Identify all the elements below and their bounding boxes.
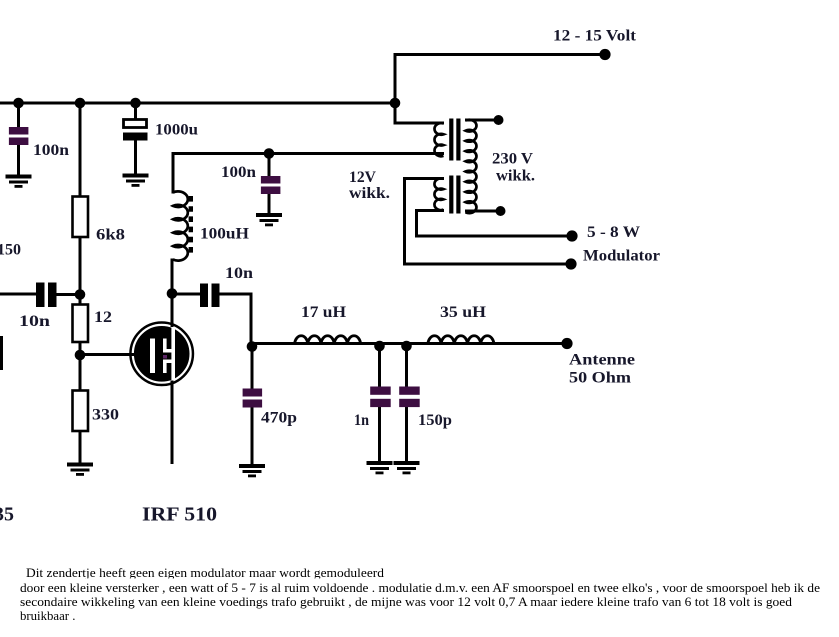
wire corner down x=251 [250, 293, 253, 346]
core dashes of 100uH [189, 196, 193, 253]
terminal 5-8W [566, 230, 577, 241]
transformer secondary winding 230V [466, 120, 477, 213]
label 12V [349, 169, 376, 186]
node output line / 150p [401, 341, 412, 352]
wire 150p stem upper [405, 345, 408, 388]
svg-text:12V: 12V [349, 169, 376, 186]
wire drain vertical x=172 [171, 259, 174, 328]
label Antenne [569, 352, 635, 369]
svg-text:1000u: 1000u [155, 122, 198, 139]
label 150p [418, 412, 452, 429]
wire output cap to corner [218, 293, 253, 296]
svg-text:6k8: 6k8 [96, 227, 125, 244]
transformer core (bottom) [449, 176, 460, 214]
wire RFC top corner x=173 [172, 152, 175, 194]
svg-text:150: 150 [0, 242, 21, 259]
label 330 [92, 407, 119, 424]
node rail / 1000u [130, 98, 141, 109]
svg-text:secondaire wikkeling van een k: secondaire wikkeling van een kleine voed… [20, 595, 793, 609]
label wikk. (230V) [496, 168, 535, 185]
label 470p [261, 410, 297, 427]
label 5 - 8 W [587, 224, 640, 241]
svg-text:wikk.: wikk. [496, 168, 535, 185]
label 50 Ohm [569, 370, 632, 387]
capacitor C 150p (plates) [399, 387, 420, 408]
capacitor C 10n input (plates) [36, 283, 57, 308]
wire 1000u stem upper [134, 103, 137, 121]
wire secondary bottom lead [465, 210, 501, 213]
svg-text:470p: 470p [261, 410, 297, 427]
ground under 330 [67, 463, 93, 476]
svg-text:100n: 100n [221, 164, 256, 181]
svg-text:wikk.: wikk. [349, 185, 390, 202]
ground under 100n decouple [256, 213, 282, 226]
caption line 2 [20, 581, 820, 595]
capacitor C 1000u electrolytic [123, 120, 148, 141]
svg-text:35: 35 [0, 504, 14, 526]
transistor Q IRF510 MOSFET [131, 323, 193, 385]
node RFC feed / 100n decouple [264, 148, 275, 159]
svg-text:bruikbaar .: bruikbaar . [20, 609, 75, 623]
wire to transformer primary top [394, 122, 445, 125]
label 100n decouple [221, 164, 256, 181]
capacitor C 100n bypass (plates) [9, 127, 29, 145]
svg-text:10n: 10n [19, 313, 50, 330]
wire gate into MOSFET [126, 353, 150, 356]
white clip over caption line 1 descenders [20, 578, 440, 581]
capacitor C 10n output (plates) [200, 284, 220, 308]
terminal secondary top [494, 115, 504, 125]
wire 330 to ground [79, 430, 82, 465]
label IRF 510 [142, 504, 217, 526]
wire gate lead [79, 353, 151, 356]
label 1000u [155, 122, 198, 139]
partial component at left edge [0, 336, 3, 370]
svg-text:1n: 1n [354, 412, 369, 429]
terminal modulator [565, 258, 576, 269]
capacitor C 470p (plates) [243, 389, 263, 408]
label 10n output [225, 265, 253, 282]
svg-text:Dit zendertje heeft geen eigen: Dit zendertje heeft geen eigen modulator… [26, 566, 385, 580]
wire 100n decouple stem lower [268, 193, 271, 215]
label 17 uH [301, 304, 347, 321]
wire 100n decouple stem upper [268, 154, 271, 178]
wire between 6k8 and 12 [79, 236, 82, 307]
ground under 150p [394, 461, 420, 474]
inductor L 17uH [295, 336, 361, 344]
label 6k8 [96, 227, 125, 244]
wire modulator bottom lead [403, 263, 571, 266]
wire drain into MOSFET [171, 291, 174, 327]
svg-text:door een kleine versterker , e: door een kleine versterker , een watt of… [20, 581, 820, 595]
wire modulator winding top lead [403, 177, 444, 180]
wire 5-8W stub vertical [415, 209, 418, 238]
label 100n bypass [33, 142, 69, 159]
label 100uH [200, 226, 250, 243]
resistor R 330 [73, 391, 89, 432]
transformer primary winding (top) [434, 123, 443, 156]
node gate input junction [75, 289, 86, 300]
svg-text:330: 330 [92, 407, 119, 424]
svg-text:35 uH: 35 uH [440, 304, 487, 321]
wire bias branch from rail [79, 103, 82, 198]
transformer modulator winding (bottom) [434, 178, 443, 210]
wire source out of MOSFET [171, 381, 174, 465]
node rail / riser [390, 98, 401, 109]
wire 1n stem upper [378, 345, 381, 388]
terminal 12-15 Volt [599, 49, 610, 60]
label wikk. (12V) [349, 185, 390, 202]
svg-text:Modulator: Modulator [583, 248, 660, 265]
ground under 1000u [123, 174, 149, 187]
svg-text:100uH: 100uH [200, 226, 250, 243]
wire drain junction to output cap [171, 293, 201, 296]
inductor L 100uH RFC [173, 191, 188, 260]
svg-text:17 uH: 17 uH [301, 304, 347, 321]
terminal antenna [561, 338, 572, 349]
resistor R 12 [73, 305, 89, 343]
wire secondary top lead [465, 119, 498, 122]
node output line / 1n [374, 341, 385, 352]
wire 100n bypass stem upper [17, 103, 20, 128]
terminal secondary bottom [496, 206, 506, 216]
caption line 3 [20, 595, 793, 609]
label 35 (clipped transistor label) [0, 504, 14, 526]
svg-text:100n: 100n [33, 142, 69, 159]
capacitor C 100n decouple (plates) [261, 176, 281, 194]
wire 12-15V top lead [394, 53, 605, 56]
inductor L 35uH [428, 336, 494, 344]
wire 5-8W lead [415, 235, 572, 238]
svg-text:230 V: 230 V [492, 151, 533, 168]
wire output line y=343.5 [251, 342, 567, 345]
wire between 12 and gate node [79, 341, 82, 357]
label 12 - 15 Volt [553, 28, 637, 45]
wire 1000u stem lower [134, 140, 137, 176]
wire input cap to gate-divider node [56, 293, 81, 296]
wire 100n bypass stem lower [17, 144, 20, 177]
svg-text:10n: 10n [225, 265, 253, 282]
wire 1n stem lower [378, 405, 381, 463]
svg-text:Antenne: Antenne [569, 352, 635, 369]
node gate divider junction [75, 350, 86, 361]
transformer core (top) [449, 119, 460, 161]
svg-text:12 - 15 Volt: 12 - 15 Volt [553, 28, 637, 45]
wire source vertical [171, 380, 174, 464]
label 12 [94, 309, 112, 326]
wire modulator vertical x=404.5 [403, 177, 406, 266]
node drain junction [167, 288, 178, 299]
label 35 uH [440, 304, 487, 321]
caption line 4 [20, 609, 75, 623]
label 10n input [19, 313, 50, 330]
label 150 (clipped resistor label) [0, 242, 21, 259]
wire 470p stem lower [251, 407, 254, 466]
wire 5-8W stub horizontal [415, 209, 444, 212]
label Modulator [583, 248, 660, 265]
wire gate node to 330 [79, 354, 82, 393]
capacitor C 1n (plates) [370, 387, 391, 408]
svg-text:5 - 8 W: 5 - 8 W [587, 224, 640, 241]
wire main supply rail y=103 [0, 102, 397, 105]
node rail / bias divider [75, 98, 86, 109]
wire input coupling y=294 [0, 293, 37, 296]
label 1n [354, 412, 369, 429]
wire RFC feed y=153.5 [172, 152, 445, 155]
wire vertical riser x=395 [394, 53, 397, 125]
svg-text:12: 12 [94, 309, 112, 326]
ground under 1n [367, 461, 393, 474]
wire 470p stem upper [251, 345, 254, 390]
node output line / 470p [247, 341, 258, 352]
svg-text:50 Ohm: 50 Ohm [569, 370, 632, 387]
wire 150p stem lower [405, 405, 408, 463]
svg-text:150p: 150p [418, 412, 452, 429]
node rail / 100n [13, 98, 24, 109]
svg-text:IRF 510: IRF 510 [142, 504, 217, 526]
label 230 V [492, 151, 533, 168]
resistor R 6k8 [73, 197, 89, 238]
ground under 100n bypass [6, 175, 32, 188]
ground under 470p [239, 464, 265, 477]
caption line 1 [26, 566, 385, 580]
